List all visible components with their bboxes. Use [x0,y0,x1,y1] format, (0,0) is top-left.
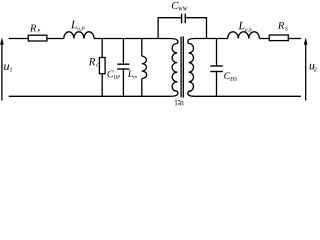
wire L_sigmaP to transformer [94,38,170,40]
label R_C [89,58,100,67]
port u2 arrow [304,37,308,100]
wire L_sigmaS to R_S [259,38,269,40]
label C_WW [172,2,188,11]
wire R_P to L_sigmaP [47,38,64,40]
inductor L_sigmaS [228,32,260,39]
transformer T1 core [181,36,183,97]
label 1:n [175,99,184,105]
label u2 [310,64,317,71]
capacitor C_DP (shunt) [117,39,129,97]
capacitor C_WW (bridge) [158,14,206,39]
label C_DS [224,72,237,80]
wire bottom-left rail [9,95,170,97]
resistor R_S [269,35,288,41]
wire R_S to right port [288,38,301,40]
resistor R_C (shunt) [99,39,105,97]
label L_M [128,71,137,79]
label L_sigmaS [238,22,251,32]
wire bottom-right rail [195,95,302,97]
transformer T1 primary winding [170,39,178,97]
wire secondary to C_DS [195,38,228,40]
resistor R_P [28,35,47,41]
port u1 arrow [0,37,4,100]
transformer T1 secondary winding [188,39,195,97]
label L_sigmaP [71,21,85,31]
capacitor C_DS (shunt) [210,39,223,97]
inductor L_sigmaP [64,32,94,39]
label u1 [4,65,12,72]
label R_S [278,22,288,31]
wire top-left rail [9,38,29,40]
inductor L_M (shunt) [142,39,147,97]
label R_P [30,25,40,33]
label C_DP [108,71,121,79]
